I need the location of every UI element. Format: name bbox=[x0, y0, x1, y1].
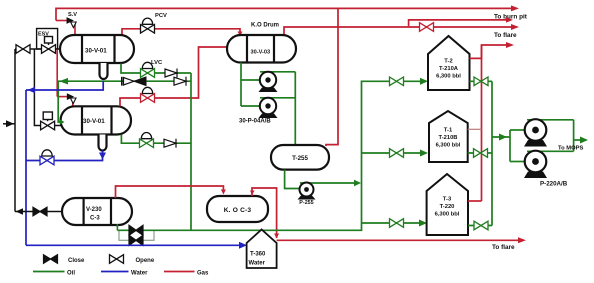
svg-text:6,300 bbl: 6,300 bbl bbox=[436, 143, 461, 149]
svg-text:V-230: V-230 bbox=[86, 207, 102, 213]
wire: red gas from V-230 to K.O C-3 bbox=[116, 186, 224, 198]
wire: black inlet to V-230 bbox=[15, 211, 62, 213]
svg-text:T-210B: T-210B bbox=[438, 135, 457, 141]
wire: green LVC oil line from 30-V-01 bbox=[121, 64, 191, 74]
wire: green branch to P-220 pumps bbox=[492, 136, 510, 138]
wire: red flare branch bbox=[409, 20, 506, 26]
node: recycle junction dot bbox=[62, 80, 65, 83]
wire: red PCV line 30-V-01 to K.O drum bbox=[122, 29, 240, 36]
valve on T-3 feed bbox=[390, 219, 404, 228]
svg-text:Water: Water bbox=[131, 271, 148, 277]
svg-text:6,300 bbl: 6,300 bbl bbox=[435, 212, 460, 218]
svg-text:T-1: T-1 bbox=[444, 128, 453, 134]
svg-text:T-3: T-3 bbox=[443, 197, 452, 203]
svg-text:S.V: S.V bbox=[68, 12, 77, 18]
relief valve S.V on 30-V-01 bbox=[56, 18, 76, 35]
check valve on recycle line bbox=[174, 77, 186, 86]
svg-text:To flare: To flare bbox=[494, 32, 517, 39]
wire: red flare line from K.O drum bbox=[284, 27, 511, 35]
svg-text:T-210A: T-210A bbox=[439, 66, 459, 72]
relief valve on second stage bbox=[57, 50, 76, 107]
wire: green feed to T-3 bbox=[362, 222, 421, 224]
wire: red gas from K.O C-3 to flare/water tank bbox=[252, 188, 277, 238]
vessel V-230 C-3 bbox=[62, 198, 132, 225]
svg-text:LVC: LVC bbox=[151, 60, 163, 66]
control valve on 2nd stage gas bbox=[141, 94, 155, 103]
vessel K.O C-3 bbox=[207, 196, 268, 222]
wire: green T-2 outlet bbox=[470, 80, 493, 82]
valve on feed header bbox=[16, 45, 30, 54]
feed inlet arrow bbox=[3, 123, 15, 125]
tank T-2 bbox=[428, 36, 470, 90]
valve on T-1 feed bbox=[390, 149, 404, 158]
wire: blue water main riser bbox=[25, 90, 27, 245]
wire: green T-255 outlet to P-255 bbox=[285, 170, 300, 189]
legend water line bbox=[101, 271, 129, 273]
legend open valve bbox=[110, 255, 124, 264]
ESV shutdown valve bbox=[15, 29, 60, 50]
svg-text:Close: Close bbox=[68, 258, 85, 264]
svg-text:30-V-03: 30-V-03 bbox=[251, 50, 271, 56]
valve with actuator on 30-V-01 second stage feed bbox=[43, 112, 60, 126]
pump P-220B bbox=[524, 151, 574, 178]
wire: blue water header to T-360 bbox=[26, 244, 241, 246]
closed valve on recycle line bbox=[122, 77, 146, 86]
wire: red to flare bottom bbox=[277, 239, 519, 241]
wire: green P-220 discharge bbox=[573, 120, 575, 152]
pump P-220A bbox=[524, 119, 574, 146]
svg-text:T-2: T-2 bbox=[444, 59, 452, 65]
svg-text:To flare: To flare bbox=[492, 244, 515, 251]
wire: green V-230 bottom bypass bbox=[117, 224, 154, 240]
tank T-360 bbox=[247, 230, 277, 269]
wire: red burn-pit header bbox=[56, 8, 511, 20]
wire: blue water line from first boot bbox=[26, 81, 103, 90]
wire: green feed to T-1 bbox=[362, 152, 421, 154]
wire: green T-1 outlet bbox=[468, 152, 492, 154]
legend closed valve bbox=[44, 255, 58, 264]
wire: green pump discharge to T-255 bbox=[294, 72, 296, 145]
pump 30-P-04B bbox=[259, 98, 296, 118]
valve on flare line bbox=[420, 23, 434, 32]
control valve LVC bbox=[141, 69, 155, 78]
tank T-3 bbox=[427, 174, 468, 235]
wire: green recycle line with closed valve bbox=[58, 81, 191, 122]
wire: red line to T-255 bbox=[326, 8, 338, 146]
wire: blue water line from second boot bbox=[26, 151, 103, 161]
wire: red T-3 vapour bbox=[468, 200, 482, 202]
boot of 30-V-01 bbox=[100, 63, 108, 79]
vessel 30-V-01 (first stage) bbox=[60, 35, 134, 79]
boot of second 30-V-01 bbox=[99, 135, 107, 151]
vessel T-255 bbox=[271, 145, 329, 170]
svg-text:T-220: T-220 bbox=[440, 204, 455, 210]
svg-text:Oil: Oil bbox=[67, 271, 75, 277]
svg-text:Opene: Opene bbox=[136, 258, 155, 264]
svg-text:Water: Water bbox=[249, 261, 266, 267]
valve on T-2 feed bbox=[390, 77, 404, 86]
vessel 30-V-01 (second stage) bbox=[61, 106, 131, 150]
svg-text:P-255: P-255 bbox=[299, 200, 313, 206]
closed valve on V-230 inlet bbox=[33, 207, 47, 216]
svg-text:Gas: Gas bbox=[197, 271, 209, 277]
svg-text:To MOPS: To MOPS bbox=[558, 146, 583, 152]
control valve on water line bbox=[40, 156, 54, 165]
svg-text:K. O C-3: K. O C-3 bbox=[224, 207, 252, 214]
svg-text:30-P-04A/B: 30-P-04A/B bbox=[239, 119, 271, 125]
svg-text:ESV: ESV bbox=[38, 32, 49, 38]
closed valve on bypass bottom bbox=[129, 235, 143, 245]
pump P-255 bbox=[298, 180, 362, 200]
legend oil line bbox=[33, 271, 65, 273]
control valve PCV bbox=[141, 25, 155, 34]
vessel 30-V-03 K.O drum bbox=[227, 35, 296, 63]
closed valve on bypass top bbox=[129, 225, 143, 235]
wire: green T-3 outlet bbox=[468, 225, 492, 227]
control valve on 2nd stage oil bbox=[140, 139, 154, 148]
wire: green oil line from 2nd stage bbox=[121, 135, 191, 144]
wire: black feed risers bbox=[14, 49, 16, 212]
wire: red tank vapour header bbox=[470, 45, 507, 58]
svg-text:T-255: T-255 bbox=[292, 155, 308, 162]
svg-text:PCV: PCV bbox=[155, 13, 167, 19]
pump 30-P-04A bbox=[259, 72, 296, 92]
wire: red T-1 vapour bbox=[468, 128, 482, 130]
check valve on LVC line bbox=[165, 69, 177, 78]
wire: green oil header to tanks bbox=[154, 81, 420, 230]
svg-text:30-V-01: 30-V-01 bbox=[85, 48, 107, 55]
wire: green product riser bbox=[491, 81, 493, 225]
svg-text:K.O Drum: K.O Drum bbox=[251, 23, 279, 29]
wire: red gas line 2nd stage to K.O drum bbox=[120, 47, 228, 106]
svg-text:T-360: T-360 bbox=[250, 252, 266, 258]
wire: green drum outlet to pumps bbox=[240, 63, 242, 107]
svg-text:30-V-01: 30-V-01 bbox=[83, 118, 105, 125]
node: water header arrow bbox=[28, 87, 36, 93]
svg-text:C-3: C-3 bbox=[90, 216, 100, 222]
tank T-1 bbox=[429, 111, 468, 162]
svg-text:6,300 bbl: 6,300 bbl bbox=[436, 74, 461, 80]
svg-text:P-220A/B: P-220A/B bbox=[540, 181, 568, 188]
wire: green oil riser to header bbox=[190, 73, 192, 230]
check valve on 2nd stage oil bbox=[164, 139, 176, 148]
legend gas line bbox=[164, 271, 195, 273]
